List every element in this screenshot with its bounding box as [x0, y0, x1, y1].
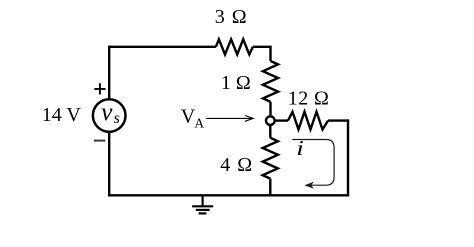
label 12 Ohm [288, 88, 329, 110]
arrow V_A to node [206, 116, 253, 122]
label 14 V [42, 104, 82, 126]
svg-text:i: i [296, 137, 304, 160]
minus polarity mark [94, 140, 105, 142]
label i current [296, 137, 304, 160]
wire 1 Ohm to node [269, 102, 271, 116]
label v_s inside source [101, 99, 120, 127]
wire top-right with corner down [253, 47, 271, 61]
label 4 Ohm [220, 154, 253, 176]
label 3 Ohm [215, 6, 248, 28]
wire bottom rail [108, 194, 349, 196]
svg-text:1 Ω: 1 Ω [221, 72, 251, 94]
svg-text:14 V: 14 V [42, 104, 82, 126]
voltage source VS circle [93, 99, 126, 132]
current loop arrow i [292, 140, 334, 189]
resistor 1 Ohm [263, 61, 278, 102]
wire left rail bottom [108, 132, 110, 196]
resistor 3 Ohm [216, 39, 253, 54]
svg-text:A: A [194, 116, 204, 131]
svg-text:v: v [101, 99, 113, 126]
svg-text:s: s [114, 110, 120, 127]
wire 4 Ohm to bottom [269, 179, 271, 196]
wire right rail down [347, 119, 349, 195]
resistor 4 Ohm [263, 138, 278, 179]
node A circle [266, 116, 275, 125]
wire 12 Ohm to right rail [328, 119, 348, 121]
wire node to 12 Ohm [275, 119, 288, 121]
wire node to 4 Ohm [269, 125, 271, 137]
svg-text:12 Ω: 12 Ω [288, 88, 329, 110]
label 1 Ohm [221, 72, 251, 94]
wire left rail top [108, 46, 110, 99]
wire top-left horizontal [109, 46, 216, 48]
plus polarity mark [94, 83, 105, 94]
label V_A [181, 106, 205, 131]
svg-text:3 Ω: 3 Ω [215, 6, 248, 28]
ground [192, 195, 213, 213]
svg-text:4 Ω: 4 Ω [220, 154, 253, 176]
resistor 12 Ohm [288, 112, 328, 130]
